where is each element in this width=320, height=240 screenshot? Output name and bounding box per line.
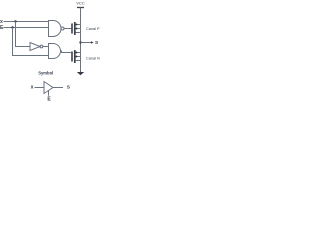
node x (symbol input label) bbox=[31, 84, 34, 90]
svg-text:E: E bbox=[0, 25, 4, 31]
svg-text:Canal N: Canal N bbox=[86, 57, 100, 61]
junction dot on x wire bbox=[14, 20, 16, 22]
inverter U2 triangle bbox=[30, 43, 40, 51]
wire symbol input bbox=[35, 87, 45, 89]
wire VCC vertical bus bbox=[80, 8, 82, 72]
transistor Q2 NMOS channel bar bbox=[74, 50, 76, 63]
node E (input label) bbox=[0, 25, 4, 31]
ground arrow symbol bbox=[77, 72, 84, 76]
and gate U3 body bbox=[49, 44, 61, 59]
power VCC label bbox=[76, 1, 85, 6]
svg-text:x: x bbox=[31, 84, 34, 90]
wire x input horizontal bbox=[4, 21, 49, 23]
wire inverter output to AND gate upper input bbox=[43, 46, 49, 48]
node S output junction dot bbox=[79, 41, 81, 43]
junction dot on E wire bbox=[11, 26, 13, 28]
nand gate U1 output bubble bbox=[61, 27, 64, 30]
label S output bbox=[95, 40, 99, 46]
wire nand output to PMOS gate bbox=[64, 28, 71, 30]
wire E input horizontal bbox=[4, 27, 49, 29]
transistor Q1 PMOS channel bar bbox=[74, 22, 76, 35]
tri-state buffer symbol triangle bbox=[44, 82, 53, 94]
svg-text:E: E bbox=[47, 96, 51, 101]
transistor Q1 drain stub bbox=[75, 24, 80, 26]
wire symbol enable vertical bbox=[48, 91, 50, 96]
transistor Q1 source stub bbox=[76, 32, 81, 34]
transistor Q2 bulk stub bbox=[75, 56, 80, 58]
svg-text:Canal P: Canal P bbox=[86, 27, 100, 31]
transistor Q1 bulk stub bbox=[75, 28, 80, 30]
svg-text:VCC: VCC bbox=[76, 1, 85, 6]
transistor Q1 PMOS gate bar bbox=[71, 24, 73, 34]
node E (symbol enable label) bbox=[47, 96, 51, 102]
svg-text:Symbol: Symbol bbox=[38, 71, 53, 76]
inverter U2 output bubble bbox=[40, 45, 43, 48]
wire and output to NMOS gate bbox=[61, 51, 72, 53]
label S (symbol output) bbox=[67, 84, 71, 90]
wire output S horizontal bbox=[81, 42, 92, 44]
label Canal N bbox=[86, 57, 100, 61]
wire symbol output bbox=[53, 87, 63, 89]
wire from x junction down to inverter input bbox=[16, 22, 31, 47]
output S arrowhead bbox=[91, 41, 94, 44]
svg-text:S: S bbox=[95, 40, 99, 46]
wire from E junction down to AND gate lower input bbox=[13, 28, 49, 56]
label Canal P bbox=[86, 27, 100, 31]
label Symbol title bbox=[38, 71, 53, 76]
transistor Q2 NMOS gate bar bbox=[71, 52, 73, 62]
transistor Q2 source stub bbox=[76, 60, 81, 62]
transistor Q2 drain stub bbox=[75, 52, 80, 54]
node x (input label) bbox=[0, 19, 3, 25]
svg-text:S: S bbox=[67, 84, 71, 90]
nand gate U1 body bbox=[49, 21, 62, 37]
power VCC rail bar bbox=[77, 7, 84, 9]
